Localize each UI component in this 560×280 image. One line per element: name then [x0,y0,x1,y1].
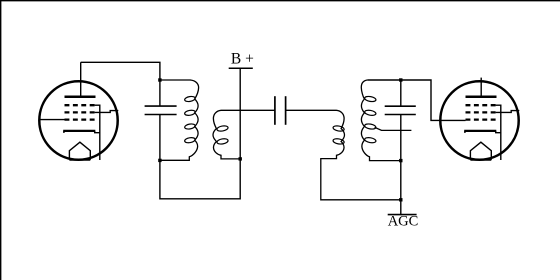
svg-text:B +: B + [231,50,254,67]
inductor T2 primary loop 2 [333,138,345,145]
tube V1 heater [69,142,90,160]
inductor T1 primary loop 2 [184,110,195,117]
wire C1 to dot B [159,115,161,161]
wire B+ to dot C [239,68,241,159]
junction dot E [399,78,402,81]
capacitor C2 right plate [285,96,287,125]
junction dot F [399,159,402,162]
tube V1 grid row 3 [65,118,95,120]
inductor T1 primary loop 4 [184,137,195,144]
capacitor C1 top plate [145,105,177,107]
junction dot A [158,78,161,81]
frame left border [0,0,2,280]
tube V1 cathode lead step [95,131,100,133]
inductor T2 primary loop 1 [333,125,345,132]
tube V2 cathode lead step [496,131,501,133]
junction dot D [399,198,402,201]
tube V1 grid row 1 [65,104,95,106]
tube V2 grid2 lead jog [496,111,520,113]
tube V2 heater base [470,159,491,161]
inductor T2 secondary loop 1 [364,96,376,103]
inductor T1 secondary loop 1 [217,125,229,132]
inductor T2 secondary loop 2 [364,109,376,116]
inductor T1 secondary loop 2 [217,138,229,145]
inductor T1 primary loop 3 [184,123,195,130]
wire plate V1 to T1 top [81,62,160,80]
tube V1 heater base [69,159,90,161]
tube V2 cathode [464,130,496,132]
tube V2 plate lead [480,78,482,97]
tube V2 cathode left tick [464,131,466,133]
tube V1 envelope [39,81,117,159]
wire T2 secondary top to dot E [367,79,401,81]
tube V2 grid row 1 [466,104,496,106]
tube V1 grid row 2 [65,111,95,113]
frame top border [0,0,560,2]
inductor T2 secondary loop 4 [364,137,376,144]
wire C3 to AGC [400,115,402,215]
tube V1 grid3 lead [39,119,65,121]
inductor T2 secondary spine [361,80,401,161]
inductor T1 primary loop 1 [184,96,195,103]
capacitor C3 top plate [385,105,416,107]
wire C2 to T2 primary top [286,109,337,111]
tube V1 cathode left tick [63,131,65,133]
capacitor C3 bottom plate [385,114,416,116]
capacitor C1 bottom plate [145,114,177,116]
wire dot E to C3 [400,80,402,106]
wire dot A to C1 [159,80,161,106]
tube V2 envelope [440,81,518,159]
inductor T2 secondary loop 3 [364,123,376,130]
junction dot C [239,157,242,160]
wire dot A to T1 primary top [160,79,191,81]
tube V1 cathode [63,130,95,132]
wire dot E to V2 grid [401,80,466,120]
inductor T1 primary spine [161,80,199,160]
wire T1 secondary top to C2 [221,109,275,111]
inductor T1 secondary spine [213,110,240,159]
svg-text:AGC: AGC [388,214,419,230]
tube V2 heater [470,142,491,160]
tube V2 grid row 2 [466,111,496,113]
tube V1 plate [65,96,96,99]
wire bottom U loop left [160,159,240,199]
inductor T2 primary spine [321,110,401,200]
AGC overbar [388,214,417,216]
tube V2 grid1 lead to cathode rail [496,105,501,160]
capacitor C2 left plate [274,96,276,125]
tube V1 plate lead [80,62,82,97]
B+ rail bar [229,67,253,69]
junction dot B [158,159,161,162]
tube V1 grid2 lead jog [95,111,119,113]
tube V2 grid row 3 [466,118,496,120]
tube V1 grid1 lead to cathode rail [95,105,100,160]
wire T2 secondary tap [375,127,412,130]
tube V2 plate [466,96,497,99]
